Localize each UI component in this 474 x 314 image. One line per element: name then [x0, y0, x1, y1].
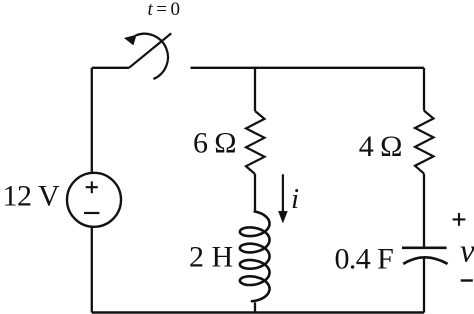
wire: inductor bottom to bottom rail	[254, 303, 256, 313]
resistor R 4-ohm zigzag	[415, 111, 434, 174]
voltage source minus sign	[84, 212, 99, 214]
switch blade (opening at t=0)	[129, 33, 171, 67]
current arrow i	[282, 174, 284, 212]
capacitor minus polarity mark	[461, 279, 473, 281]
wire: 6-ohm resistor to inductor	[254, 174, 256, 211]
wire: bottom rail	[92, 311, 424, 314]
svg-text:t=0: t=0	[148, 0, 184, 20]
resistor R 6-ohm zigzag	[246, 111, 265, 174]
svg-text:4 Ω: 4 Ω	[359, 130, 402, 163]
svg-text:2 H: 2 H	[189, 240, 233, 273]
voltage source plus sign	[86, 181, 98, 193]
inductor L 2H coil	[240, 212, 270, 302]
capacitor plus polarity mark	[453, 213, 466, 226]
wire: left rail upper (top wire to source)	[91, 68, 93, 173]
wire: 4-ohm resistor to capacitor	[423, 174, 425, 247]
voltage source V1 circle	[67, 173, 121, 227]
capacitor C 0.4F top plate	[402, 247, 447, 250]
svg-text:12 V: 12 V	[3, 179, 60, 212]
svg-text:i: i	[291, 183, 299, 215]
capacitor C 0.4F curved bottom plate	[403, 257, 447, 264]
svg-text:6 Ω: 6 Ω	[193, 127, 236, 160]
svg-text:v: v	[460, 233, 474, 269]
wire: left rail lower (source to bottom)	[91, 227, 93, 313]
wire: capacitor to bottom rail	[423, 258, 425, 312]
switch arrow head	[124, 35, 137, 46]
svg-text:0.4 F: 0.4 F	[335, 243, 394, 276]
wire: top-left horizontal segment	[92, 67, 129, 69]
wire: middle branch top (junction to 6-ohm resistor)	[254, 68, 256, 111]
current arrow head	[278, 211, 288, 224]
wire: right rail upper (top wire to 4-ohm resistor)	[423, 68, 425, 111]
wire: top-right horizontal segment (switch contact to right corner)	[191, 67, 425, 69]
switch motion arc	[136, 34, 168, 79]
